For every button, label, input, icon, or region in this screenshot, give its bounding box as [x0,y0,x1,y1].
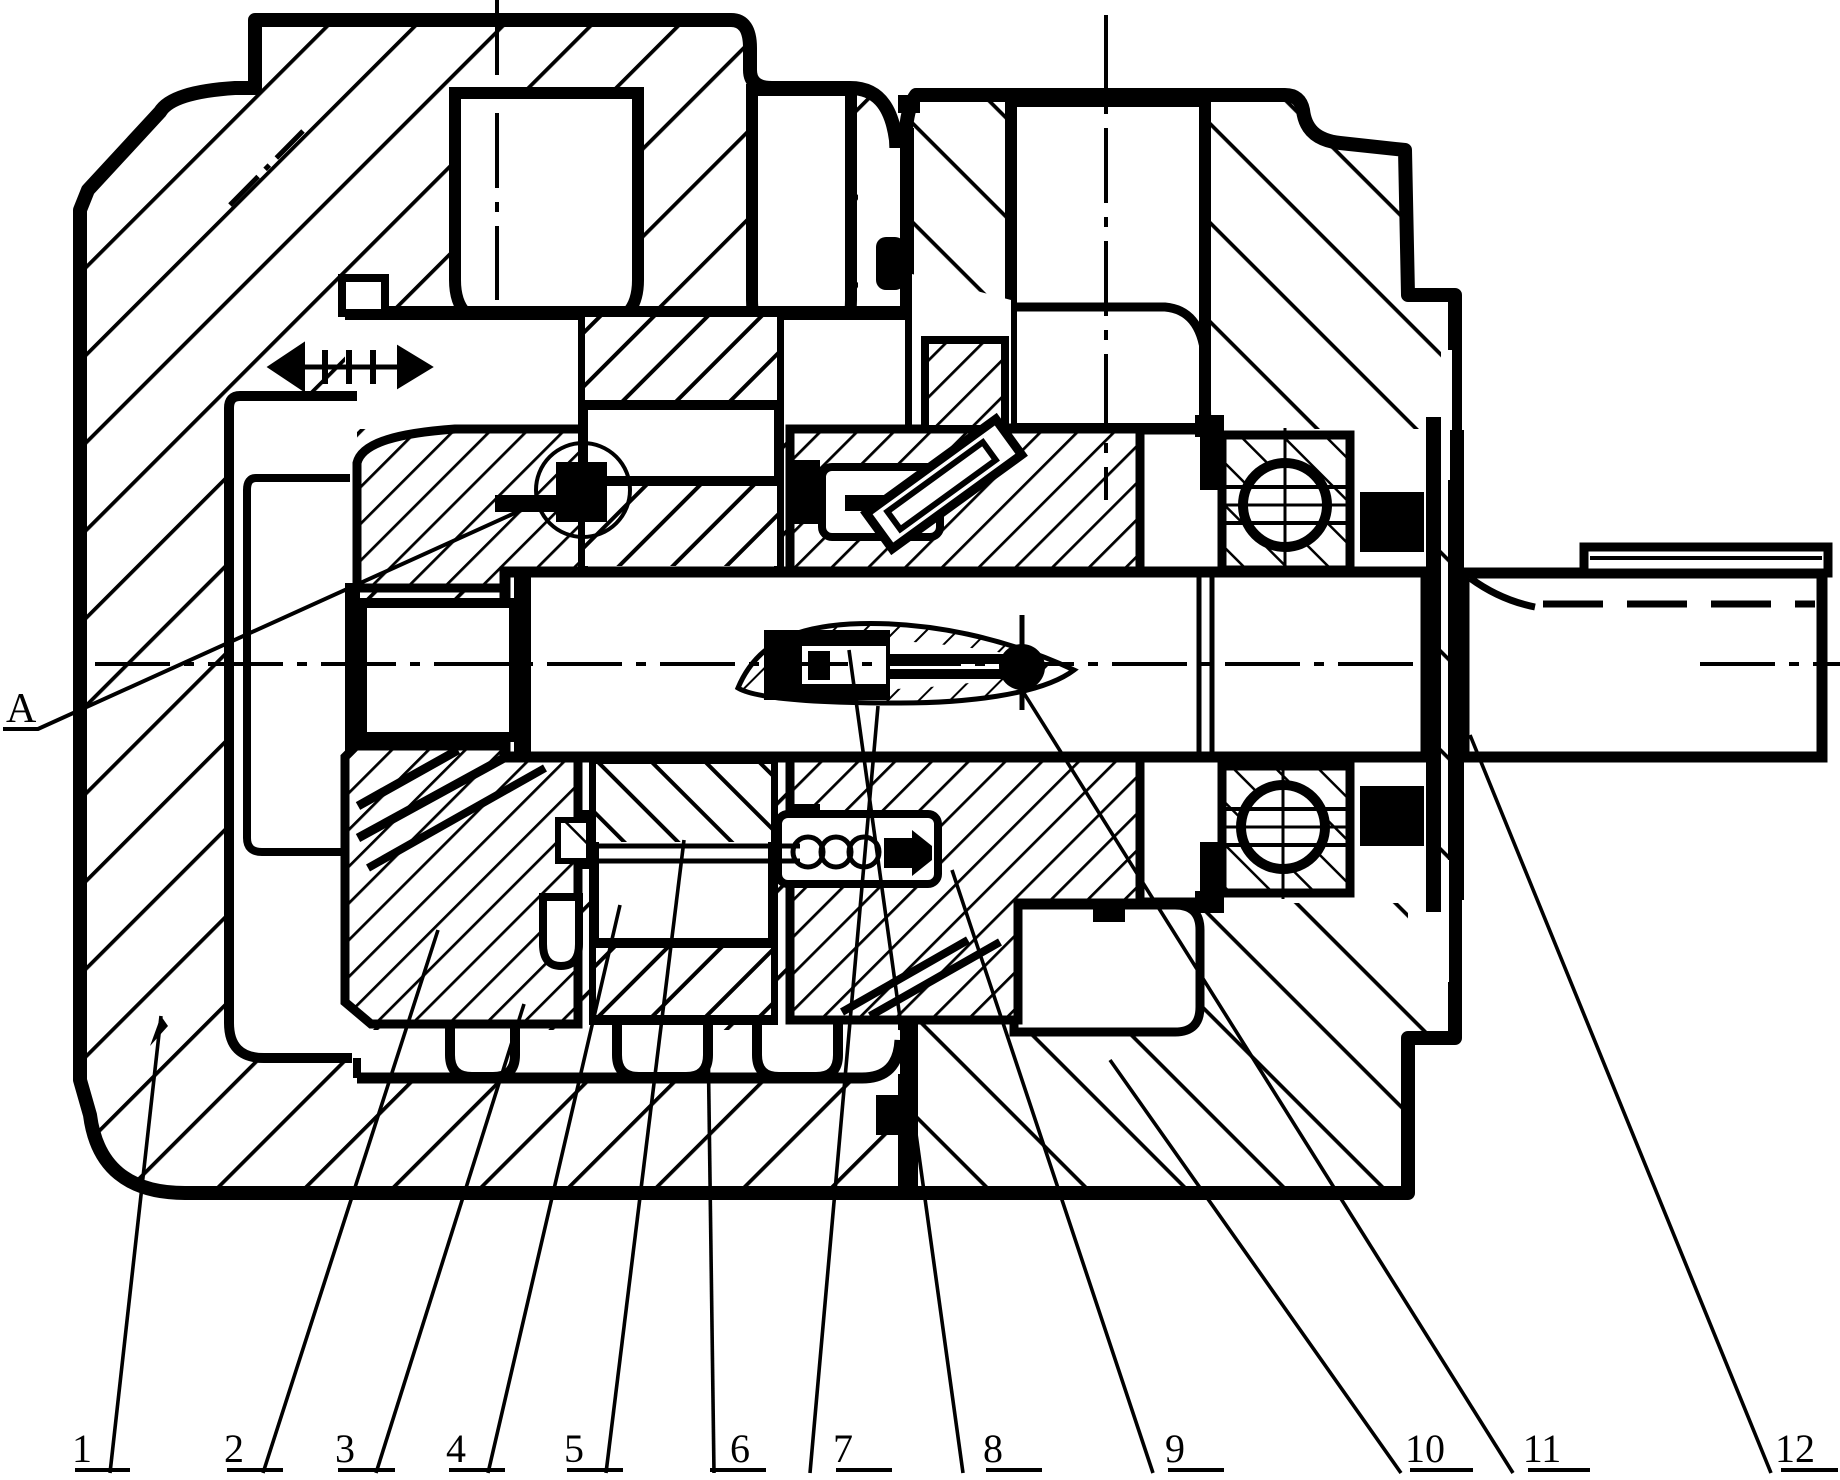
pump rear body part11 [905,95,1455,1193]
svg-text:12: 12 [1775,1426,1815,1471]
bearing bore [912,274,1011,429]
leader lines 1-12 [110,650,1771,1473]
pressure plate part3 (lower left) [345,746,578,1024]
rotor/stator column part5 part6 (lower) [594,760,773,1020]
svg-text:A: A [6,686,37,732]
cartridge left wall [345,583,360,751]
svg-text:6: 6 [730,1426,750,1471]
joint seal block (bottom) [876,1095,905,1135]
bolt pocket A (top center-left) [455,93,638,325]
drive shaft part7 [505,572,1426,757]
body joint gap [858,148,904,313]
rotor/stator column part4 (upper) [583,313,779,572]
port plate (upper right) [790,429,1140,572]
vane spring detail circle [536,443,630,537]
bearing retainer caps [1195,415,1224,437]
coupling pin detail part8 (lens) [738,615,1074,710]
rear cover inner corner [960,903,1014,1022]
chamber upper band [345,313,905,429]
o-ring seal at joint [876,237,905,290]
pump body left part1 [80,20,905,1193]
svg-text:2: 2 [224,1426,244,1471]
port plate (lower right) [790,757,1140,1020]
pump chamber (left) [229,396,357,1058]
body joint seam band [900,128,914,310]
chamber inner lip [247,478,350,852]
part number labels 1-12 [72,1426,1815,1471]
output shaft end part12 with key [1464,547,1828,757]
rear cover cavity [1014,905,1200,1032]
end cover face plate [1426,417,1441,912]
set screw symbol [342,278,385,313]
port tab 1 [450,1024,515,1077]
svg-text:5: 5 [564,1426,584,1471]
svg-text:11: 11 [1523,1426,1562,1471]
shaft journal (left) [362,603,514,737]
bolt pocket B (top center-right) [752,90,851,345]
rear cover spring pocket [1011,101,1205,429]
svg-text:1: 1 [72,1426,92,1471]
centerlines dash-dot [95,0,1840,664]
ball bearing (lower) [1222,760,1352,899]
ball bearing part10 (upper) [1222,428,1352,578]
svg-text:8: 8 [983,1426,1003,1471]
svg-text:10: 10 [1405,1426,1445,1471]
chamber bottom gap [352,1030,900,1074]
svg-text:4: 4 [446,1426,466,1471]
shaft seals part9 [1360,492,1424,552]
svg-text:7: 7 [833,1426,853,1471]
svg-text:9: 9 [1165,1426,1185,1471]
rear cover top contour [1011,307,1207,429]
cover slots [1441,350,1452,480]
svg-text:3: 3 [335,1426,355,1471]
pressure plate part2 (upper left) [357,429,583,588]
